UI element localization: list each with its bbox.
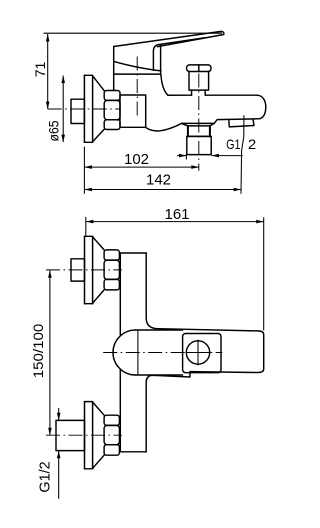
spout outlet tube [187, 136, 211, 154]
upper flange cone [93, 237, 105, 303]
svg-text:142: 142 [146, 172, 171, 189]
knob plate (plan) [183, 334, 221, 373]
svg-text:2: 2 [248, 136, 256, 152]
svg-text:71: 71 [32, 62, 48, 78]
svg-text:G1: G1 [226, 136, 241, 152]
supply pipe stub [71, 99, 84, 123]
hex nut (side view) [104, 91, 120, 130]
dimension 150/100 [30, 270, 52, 435]
dimension ø65 [46, 76, 65, 143]
axis: wall connection centerline [48, 108, 121, 110]
flange cone [93, 76, 105, 142]
neck front curve [161, 74, 168, 95]
axis: lower flange centerline [46, 434, 122, 436]
handle oval (plan) [113, 330, 183, 375]
dimension 102 [84, 147, 198, 194]
lower wall flange plate [85, 402, 93, 469]
upper hex nut [104, 250, 119, 290]
body right rounded end [214, 95, 266, 123]
svg-text:102: 102 [124, 151, 149, 168]
diverter knob cap [187, 65, 211, 72]
knob circle [186, 341, 209, 364]
upper connecting tube [120, 253, 158, 336]
knob stem [192, 90, 206, 95]
lower supply pipe stub [56, 420, 85, 450]
lower hex nut [104, 415, 119, 455]
body slab [120, 329, 263, 452]
svg-text:G1/2: G1/2 [38, 461, 54, 492]
dimension 142 [84, 115, 244, 194]
upper supply pipe stub [71, 259, 85, 281]
union rectangle [120, 95, 146, 127]
upper wall flange plate [85, 236, 93, 303]
knob body [189, 72, 209, 91]
wall flange plate (side view) [84, 75, 92, 142]
body top behind handle [114, 73, 160, 75]
body bottom contour [146, 123, 182, 131]
circle crosshair horizontal tick [186, 352, 211, 354]
svg-text:ø65: ø65 [46, 121, 61, 142]
axis: cartridge vertical [136, 57, 138, 119]
dimension 71 [32, 33, 222, 109]
dimension 161 [86, 206, 264, 331]
axis: upper flange centerline [46, 269, 122, 271]
handle lever outline [114, 31, 224, 90]
knob cap split line [198, 65, 200, 72]
dimension G1/2 lower pipe [38, 408, 61, 499]
axis: knob / spout vertical [198, 74, 200, 171]
handle inner edge [153, 38, 205, 75]
spout collar [182, 123, 215, 126]
knob circle vertical tick [197, 340, 199, 366]
svg-text:161: 161 [164, 206, 189, 223]
handle pivot line [137, 330, 139, 375]
spout thread section [188, 126, 210, 136]
wall bracket tab [229, 119, 254, 127]
svg-text:150/100: 150/100 [30, 324, 46, 379]
axis: body centerline [103, 352, 222, 354]
dimension G1/2 outlet [177, 136, 256, 160]
lower flange cone [93, 402, 105, 468]
body top edge [168, 94, 257, 96]
